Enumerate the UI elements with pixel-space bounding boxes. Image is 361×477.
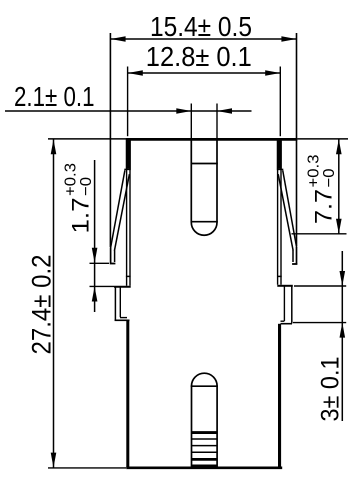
extension line 1.7 lower [90, 285, 115, 287]
dimension 3 line [341, 251, 343, 421]
arrow 1.7 upper (pointing down) [92, 248, 98, 263]
left arm tip inner [114, 251, 116, 263]
left step top [114, 286, 131, 288]
left arm bend tick [124, 168, 131, 170]
right arm bend tick [277, 168, 284, 170]
right arm tip outer [296, 247, 298, 264]
svg-text:+0.3: +0.3 [306, 154, 323, 187]
left arm tip outer [110, 248, 112, 264]
right step bottom inner [281, 320, 285, 322]
left tab inner [119, 287, 121, 317]
left lower edge bar [126, 321, 129, 469]
dimension 15.4±0.5 line [111, 38, 297, 40]
left step bottom inner [120, 317, 127, 319]
svg-text:2.1± 0.1: 2.1± 0.1 [14, 81, 95, 112]
left tab outer [114, 287, 116, 321]
right tab outer [291, 286, 293, 324]
dimension 1.7 +0.3/-0 text (rotated) [63, 163, 96, 234]
slot cross line lower [191, 221, 218, 223]
body bottom edge [126, 466, 282, 469]
solder pin left wall [191, 386, 193, 467]
extension line 12.8 left [127, 67, 129, 137]
arrow 3 lower (pointing up) [340, 323, 346, 338]
left arm root bar [126, 139, 131, 169]
slot cross line upper [191, 163, 218, 165]
left arm inner slant [114, 174, 129, 251]
arrow 27.4 top [51, 139, 57, 154]
right edge notch tick [277, 275, 282, 277]
pin serration 5 [192, 458, 218, 461]
slot bottom arc [191, 222, 217, 235]
right step bottom outer [281, 323, 293, 325]
extension line bottom edge left [48, 467, 126, 469]
left edge notch tick [126, 275, 131, 277]
right arm tip inner [292, 250, 294, 262]
solder pin dome base [191, 385, 218, 387]
solder pin dome [192, 373, 218, 386]
right body edge outer [280, 138, 282, 285]
dimension 7.7 +0.3/-0 text (rotated) [306, 154, 339, 224]
arrow 2.1 right (outside, pointing left) [217, 108, 232, 114]
arrow 27.4 bottom [51, 453, 57, 468]
right tab inner [283, 286, 285, 321]
extension line top edge right [298, 138, 349, 140]
body top edge [126, 138, 297, 141]
pin serration 2 [192, 438, 218, 440]
svg-text:3± 0.1: 3± 0.1 [317, 357, 345, 422]
extension line slot left [190, 104, 192, 139]
left body edge inner [129, 138, 131, 286]
svg-text:7.7: 7.7 [311, 189, 338, 224]
pin serration 6 [192, 465, 218, 468]
extension line slot right [216, 104, 218, 139]
svg-text:−0: −0 [78, 177, 95, 196]
arrow 1.7 lower (pointing up) [92, 287, 98, 302]
svg-text:15.4± 0.5: 15.4± 0.5 [150, 11, 252, 42]
svg-text:+0.3: +0.3 [63, 163, 80, 196]
dimension 12.8±0.1 line [128, 72, 280, 74]
arrow 15.4 left [111, 36, 126, 42]
svg-text:−0: −0 [321, 168, 338, 187]
extension line 15.4 right [296, 33, 298, 246]
slot left wall [190, 138, 192, 222]
pin serration 1 [192, 431, 218, 434]
extension line top edge left [48, 138, 126, 140]
left arm outer slant [111, 170, 125, 248]
left step bottom outer [115, 319, 130, 321]
arrow 3 upper (pointing down) [340, 271, 346, 286]
dimension 27.4±0.2 line [53, 139, 55, 467]
right step top [277, 285, 293, 287]
left body edge outer [126, 138, 128, 286]
left arm tip cap [110, 263, 116, 265]
dimension 2.1±0.1 line [5, 110, 252, 112]
extension line 15.4 left [109, 33, 111, 247]
svg-text:1.7: 1.7 [68, 198, 95, 234]
extension line 12.8 right [279, 67, 281, 137]
right arm tip cap [292, 263, 297, 265]
right arm root bar [277, 139, 282, 169]
solder pin right wall [216, 386, 218, 467]
arrow 12.8 right [265, 70, 280, 76]
dimension 1.7 line [94, 160, 96, 312]
svg-text:27.4± 0.2: 27.4± 0.2 [26, 255, 56, 355]
arrow 15.4 right [281, 36, 296, 42]
arrow 7.7 top [336, 139, 342, 154]
pin serration 3 [192, 445, 218, 447]
extension line 1.7 upper [90, 262, 110, 264]
svg-text:12.8± 0.1: 12.8± 0.1 [146, 41, 252, 72]
extension line 3 lower [293, 322, 346, 324]
arrow 2.1 left (outside, pointing right) [176, 108, 191, 114]
extension line 3 upper [294, 285, 346, 287]
arrow 7.7 bottom [336, 219, 342, 234]
right body edge inner [277, 138, 279, 285]
slot right wall [216, 138, 218, 222]
extension line 7.7 bottom [292, 233, 347, 235]
right arm outer slant [283, 170, 297, 247]
right lower edge bar [278, 324, 281, 468]
dimension 7.7 line [338, 139, 340, 234]
arrow 12.8 left [128, 70, 143, 76]
pin serration 4 [192, 451, 218, 453]
right arm inner slant [278, 174, 293, 250]
